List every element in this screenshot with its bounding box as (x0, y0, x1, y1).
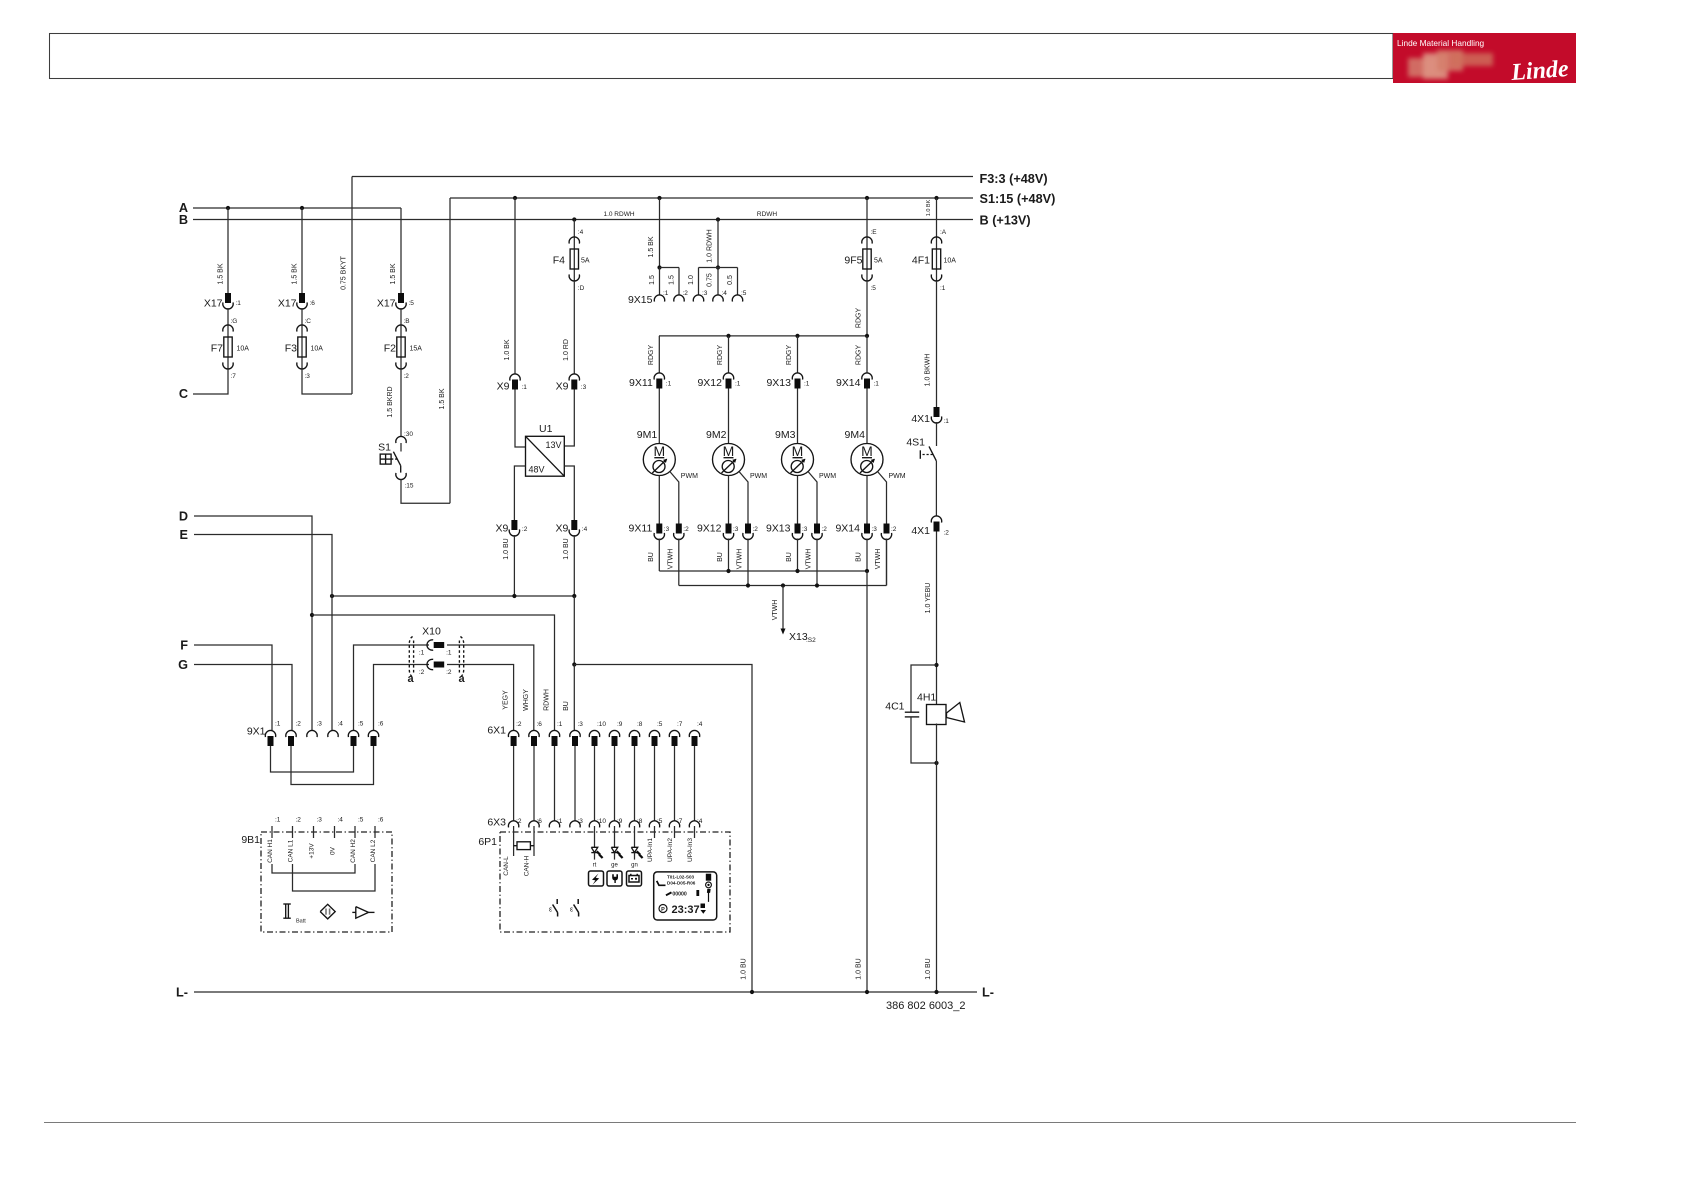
svg-text:9X13: 9X13 (766, 523, 791, 535)
svg-text:M: M (653, 443, 665, 459)
svg-text:+13V: +13V (309, 843, 316, 859)
wire B rail to F4 (573, 220, 575, 238)
junction bus/9X13 (795, 334, 799, 338)
svg-text:RDWH: RDWH (544, 689, 551, 711)
svg-text:X9: X9 (555, 523, 568, 535)
junction VTWH bus 9X13 (815, 583, 819, 587)
wire 9X1:6 to X10:2 (374, 665, 430, 731)
wire 6X3:6 stub CAN-H (533, 826, 535, 856)
wire 9X11:2 to VTWH bus (678, 539, 680, 586)
junction S1 rail / X9:1 (513, 196, 517, 200)
svg-text:1.0 BU: 1.0 BU (925, 958, 932, 979)
svg-text:CAN-H: CAN-H (523, 855, 530, 876)
junction BU bus 9X13 (795, 569, 799, 573)
svg-text:9X15: 9X15 (628, 294, 653, 306)
wire X9:3 to U1 13V (564, 390, 574, 447)
svg-text:23:37: 23:37 (672, 904, 700, 916)
junction bus/9X12 (726, 334, 730, 338)
motor 9M3 (782, 444, 814, 476)
wire A to X17:6 (301, 208, 303, 293)
wire D bus to 6X1:1 (312, 615, 555, 730)
svg-text::1: :1 (275, 817, 281, 824)
svg-text:gn: gn (631, 863, 638, 869)
junction S1 rail / 9F5 (865, 196, 869, 200)
svg-text::1: :1 (874, 381, 880, 388)
connector X17:1 (225, 293, 231, 303)
capacitor 4C1 (905, 711, 919, 713)
svg-text::5: :5 (358, 817, 364, 824)
svg-text:1.5 BK: 1.5 BK (292, 263, 299, 284)
svg-text:WHGY: WHGY (523, 689, 530, 711)
svg-text:UPA-In3: UPA-In3 (687, 838, 694, 862)
junction L- horn (934, 990, 938, 994)
net A line (193, 207, 401, 209)
wire X9:4 to 0V bus (573, 535, 575, 596)
junction L- motors (865, 990, 869, 994)
net S1:15 (+48V) rail (450, 197, 973, 199)
icon plug (607, 871, 622, 886)
motor 9M1 (643, 444, 675, 476)
svg-text:6P1: 6P1 (478, 836, 497, 848)
connector 9X11:3 (656, 524, 662, 534)
wire U1 to X9:2 (514, 466, 525, 520)
connector 4X1:2 (931, 516, 941, 523)
wire motor 9M1 to 9X11:3 (658, 476, 660, 524)
wire X17:1 to F7 (227, 308, 229, 325)
LED gn (634, 826, 636, 847)
svg-text::4: :4 (578, 229, 584, 236)
net VTWH bus (679, 585, 887, 587)
svg-text:1.0 RD: 1.0 RD (563, 339, 570, 361)
svg-text::6: :6 (537, 721, 543, 728)
wire motor 9M3 PWM to 9X13:2 (808, 472, 817, 524)
wire rail to 9X15 right (717, 220, 719, 268)
wire 9X13:3 to BU bus (797, 539, 799, 572)
svg-text:Linde: Linde (1509, 56, 1569, 86)
svg-text:0.5: 0.5 (727, 275, 734, 285)
svg-text:B: B (179, 213, 188, 227)
wires 6X1 to 6X3 (513, 746, 515, 821)
svg-text::D: :D (578, 285, 585, 292)
svg-text:5A: 5A (581, 258, 590, 265)
9B1 pins (271, 826, 273, 838)
motor 9M4 (851, 444, 883, 476)
icon power (589, 871, 604, 886)
svg-text:B (+13V): B (+13V) (980, 214, 1031, 228)
wire X9:1 to U1 (515, 390, 526, 448)
svg-text:9M4: 9M4 (845, 429, 866, 441)
svg-text::4: :4 (338, 721, 344, 728)
junction L- 6P1 (750, 990, 754, 994)
net L- rail (194, 991, 977, 993)
svg-text::3: :3 (664, 526, 670, 533)
svg-text::3: :3 (872, 526, 878, 533)
svg-text::1: :1 (522, 384, 528, 391)
svg-text:5A: 5A (874, 258, 883, 265)
svg-text:0.75 BKYT: 0.75 BKYT (341, 255, 348, 290)
svg-text:L-: L- (176, 986, 188, 1000)
fuse F3 10A (301, 325, 303, 369)
svg-text::2: :2 (419, 669, 425, 676)
svg-text:Batt: Batt (296, 919, 306, 925)
junction BU bus 9X12 (726, 569, 730, 573)
wire 6X3:5 stub UPA-In1 (654, 826, 656, 838)
connector 9X11:1 (654, 373, 664, 380)
wire 9X1:5 to X10:1 (354, 645, 430, 730)
svg-text::G: :G (231, 318, 238, 325)
wire 9X14:1 to motor 9M4 (866, 389, 868, 444)
svg-text::2: :2 (683, 290, 689, 297)
svg-text:9X13: 9X13 (766, 377, 791, 389)
svg-text:9M2: 9M2 (706, 429, 727, 441)
svg-text::8: :8 (637, 721, 643, 728)
connector X17:5 (398, 293, 404, 303)
svg-text::B: :B (404, 318, 410, 325)
svg-text:4X1: 4X1 (911, 413, 930, 425)
wire X17:6 to F3 (301, 308, 303, 325)
header frame (50, 34, 1394, 79)
connector X17:6 (299, 293, 305, 303)
fuse 9F5 5A (866, 237, 868, 281)
connector X9:4 (571, 520, 577, 530)
svg-text::7: :7 (677, 818, 683, 825)
svg-text:X9: X9 (496, 523, 509, 535)
svg-text:1.0 BK: 1.0 BK (504, 339, 511, 360)
wire VTWH bus corner (886, 539, 888, 586)
net BU return bus (659, 570, 867, 572)
svg-text:PWM: PWM (889, 473, 906, 480)
svg-text::1: :1 (446, 650, 452, 657)
svg-text::3: :3 (733, 526, 739, 533)
junction bus/9X14 (865, 334, 869, 338)
svg-text:M: M (792, 443, 804, 459)
display 6P1 (654, 872, 717, 920)
wire 9X12:3 to BU bus (728, 539, 730, 572)
svg-text::2: :2 (446, 669, 452, 676)
svg-text:1.5 BK: 1.5 BK (390, 263, 397, 284)
wire rail to 9X15 left (659, 198, 661, 268)
LED ge (614, 826, 616, 847)
wire CAN L1 to CAN L2 (293, 864, 376, 891)
wire S1:15 to riser (401, 480, 450, 504)
svg-text::9: :9 (617, 721, 623, 728)
net D line (194, 516, 312, 730)
svg-text:VTWH: VTWH (875, 549, 882, 570)
svg-text:4F1: 4F1 (912, 255, 930, 267)
wire drop 9X15:4 (717, 268, 719, 296)
svg-text:RDWH: RDWH (757, 211, 778, 218)
wire 9X13:1 to motor 9M3 (797, 389, 799, 444)
Linde banner (1393, 33, 1576, 83)
svg-text:1.5 BK: 1.5 BK (439, 388, 446, 409)
svg-text::1: :1 (557, 818, 563, 825)
junction S1 rail / 4F1 (934, 196, 938, 200)
svg-text:0.75: 0.75 (707, 273, 714, 287)
svg-text:CAN L1: CAN L1 (288, 839, 295, 862)
module 9B1 box (261, 832, 392, 932)
svg-text::1: :1 (940, 285, 946, 292)
wire X17:5 to F2 (400, 308, 402, 325)
junction horn branch bottom (934, 761, 938, 765)
svg-text::4: :4 (338, 817, 344, 824)
wire BU bus to L- (866, 571, 868, 992)
svg-text::C: :C (305, 318, 312, 325)
battery symbol Batt (283, 903, 291, 905)
svg-text:1.5 BKRD: 1.5 BKRD (387, 386, 394, 417)
svg-text:X17: X17 (278, 298, 297, 310)
triangle symbol (352, 911, 356, 913)
junction B rail / 9X15 (716, 217, 720, 221)
svg-text::3: :3 (317, 817, 323, 824)
wire 6X3:2 stub CAN-L (513, 826, 515, 856)
wire F2 to S1 (400, 369, 402, 437)
wire motor 9M4 to 9X14:3 (866, 476, 868, 524)
svg-text::3: :3 (317, 721, 323, 728)
svg-text::3: :3 (578, 818, 584, 825)
svg-text:13V: 13V (546, 440, 562, 450)
svg-text:ε: ε (570, 907, 573, 914)
wire F3 to BKYT riser (302, 369, 352, 394)
connector 9X14:1 (862, 373, 872, 380)
connector 9X13:1 (792, 373, 802, 380)
svg-text:F7: F7 (211, 343, 223, 355)
svg-text:ε: ε (549, 907, 552, 914)
converter U1 48V/13V (526, 436, 565, 476)
svg-text:9X12: 9X12 (697, 523, 722, 535)
svg-text::10: :10 (597, 721, 606, 728)
wire drop 9X15:1 (659, 268, 661, 296)
wire 1.5 BK riser to S1:15 rail (449, 198, 451, 503)
svg-text:1.5: 1.5 (649, 275, 656, 285)
wire motor 9M3 to 9X13:3 (797, 476, 799, 524)
svg-text:M: M (723, 443, 735, 459)
svg-text::6: :6 (378, 817, 384, 824)
svg-text::A: :A (940, 229, 947, 236)
wire 6X3:7 stub UPA-In2 (674, 826, 676, 838)
connector X9:3 (569, 374, 579, 381)
connector 9X13:3 (795, 524, 801, 534)
svg-text::5: :5 (409, 300, 415, 307)
net E line (194, 535, 332, 731)
svg-text:9X11: 9X11 (629, 523, 653, 535)
svg-text::7: :7 (231, 373, 237, 380)
svg-text:VTWH: VTWH (806, 549, 813, 570)
junction VTWH bus 9X12 (746, 583, 750, 587)
wire X10:2 to 6X1:2 (447, 665, 514, 731)
wire bus to 9X14:1 (866, 336, 868, 373)
wire 4X1:2 to horn (936, 532, 938, 706)
svg-text::2: :2 (683, 526, 689, 533)
svg-text:15A: 15A (410, 346, 423, 353)
junction VTWH bus X13 stub (781, 583, 785, 587)
wire 0V to L- riser (574, 665, 752, 993)
wire 9X1:2 to 9X1:6 link (291, 746, 374, 785)
svg-text::S2: :S2 (806, 637, 816, 644)
svg-text:VTWH: VTWH (772, 600, 779, 621)
svg-text:10A: 10A (944, 258, 957, 265)
svg-text:9B1: 9B1 (241, 834, 260, 846)
svg-text::3: :3 (578, 721, 584, 728)
wire motor 9M2 to 9X12:3 (728, 476, 730, 524)
fuse 4F1 10A (936, 237, 938, 281)
junction 9X15 left split (657, 265, 661, 269)
wire rail to 4F1 (936, 198, 938, 237)
svg-text:YEGY: YEGY (503, 690, 510, 710)
svg-text::6: :6 (537, 818, 543, 825)
svg-text::2: :2 (296, 817, 302, 824)
wire motor 9M1 PWM to 9X11:2 (670, 472, 679, 524)
svg-text:1.0 BU: 1.0 BU (503, 538, 510, 559)
svg-text::30: :30 (404, 431, 413, 438)
svg-text:PWM: PWM (681, 473, 698, 480)
svg-text:C: C (179, 387, 188, 401)
svg-text::2: :2 (516, 818, 522, 825)
svg-text:P: P (661, 907, 665, 913)
fuse F2 15A (400, 325, 402, 369)
svg-text:48V: 48V (529, 465, 545, 475)
svg-text::1: :1 (236, 300, 242, 307)
svg-text:RDGY: RDGY (786, 345, 793, 366)
svg-text::8: :8 (637, 818, 643, 825)
wire F4 to X9:3 (573, 281, 575, 374)
wire 4S1 to 4X1:2 (935, 461, 937, 516)
wire capacitor branch (911, 665, 937, 712)
svg-text:9X14: 9X14 (835, 523, 860, 535)
svg-text:RDGY: RDGY (856, 345, 863, 366)
svg-text:1.0 BKWH: 1.0 BKWH (925, 354, 932, 387)
wire bus to 9X13:1 (797, 336, 799, 373)
wire 9X14:3 to BU bus (866, 539, 868, 572)
svg-text:F: F (180, 639, 188, 653)
svg-text:E: E (180, 528, 188, 542)
junction X9:2/0V bus (512, 594, 516, 598)
LED rt (594, 826, 596, 847)
svg-text::1: :1 (944, 418, 950, 425)
wire motor 9M4 PWM to 9X14:2 (878, 472, 887, 524)
svg-text:00000: 00000 (672, 891, 687, 897)
svg-text::3: :3 (802, 526, 808, 533)
net B (+13V) rail (193, 219, 973, 221)
svg-text:6X1: 6X1 (487, 725, 506, 737)
wire A corner to X17:5 (400, 208, 402, 293)
svg-text:1.0 BU: 1.0 BU (563, 538, 570, 559)
wire X10:1 to 6X1:6 (447, 645, 534, 730)
svg-text::5: :5 (657, 721, 663, 728)
svg-text:9M1: 9M1 (637, 429, 658, 441)
connector 9X11:2 (676, 524, 682, 534)
wire stub to X13:S2 (782, 586, 784, 630)
junction horn branch top (934, 663, 938, 667)
svg-text:BU: BU (856, 552, 863, 562)
svg-text:rt: rt (593, 863, 597, 869)
svg-text::1: :1 (275, 721, 281, 728)
junction B rail / F4 (572, 217, 576, 221)
wire capacitor to junction (911, 717, 937, 763)
net F line (194, 645, 272, 730)
svg-text:BU: BU (717, 552, 724, 562)
svg-text:X17: X17 (204, 298, 223, 310)
svg-text:ge: ge (611, 863, 618, 869)
wire 9X12:1 to motor 9M2 (728, 389, 730, 444)
svg-text:F3: F3 (285, 343, 297, 355)
svg-text::7: :7 (677, 721, 683, 728)
wire U1 to X9:4 (564, 466, 574, 520)
svg-text:10A: 10A (311, 346, 324, 353)
wire bus to 9X11:1 (658, 336, 660, 373)
junction A/X17:1 (226, 206, 230, 210)
connector 4X1:1 (934, 407, 940, 417)
svg-text:G: G (178, 658, 188, 672)
svg-text::4: :4 (722, 290, 728, 297)
svg-text::3: :3 (305, 373, 311, 380)
svg-text:1.0 RDWH: 1.0 RDWH (603, 211, 634, 218)
svg-text::2: :2 (296, 721, 302, 728)
junction D bus (310, 613, 314, 617)
diamond symbol (320, 904, 335, 919)
connector X9:1 (510, 374, 520, 381)
svg-text:1.0 RDWH: 1.0 RDWH (707, 229, 714, 262)
junction BU bus 9X14 (865, 569, 869, 573)
net F3:3 (+48V) rail (352, 176, 973, 178)
svg-text:0V: 0V (330, 846, 337, 855)
svg-text:386 802 6003_2: 386 802 6003_2 (886, 1000, 966, 1012)
svg-text:F3:3 (+48V): F3:3 (+48V) (980, 172, 1048, 186)
resistor CAN termination (514, 845, 517, 847)
svg-text::1: :1 (666, 381, 672, 388)
motor 9M2 (713, 444, 745, 476)
svg-text:VTWH: VTWH (737, 549, 744, 570)
svg-text::5: :5 (358, 721, 364, 728)
svg-text:BU: BU (786, 552, 793, 562)
svg-text::2: :2 (522, 526, 528, 533)
svg-text::2: :2 (753, 526, 759, 533)
wire rail to X9:1 (514, 198, 516, 374)
svg-text::1: :1 (557, 721, 563, 728)
svg-text:VTWH: VTWH (667, 549, 674, 570)
wire bus to 9X12:1 (728, 336, 730, 373)
svg-text:1.5 BK: 1.5 BK (218, 263, 225, 284)
footer rule (44, 1122, 1576, 1124)
svg-text:1.0 BU: 1.0 BU (856, 958, 863, 979)
svg-text:F4: F4 (553, 255, 565, 267)
connector 9X13:2 (814, 524, 820, 534)
svg-text:X9: X9 (556, 381, 569, 393)
svg-text::2: :2 (891, 526, 897, 533)
svg-text:X17: X17 (377, 298, 396, 310)
junction A/X17:6 (300, 206, 304, 210)
svg-text:Linde Material Handling: Linde Material Handling (1397, 38, 1485, 48)
connector 9X14:2 (884, 524, 890, 534)
svg-text:1.0: 1.0 (688, 275, 695, 285)
svg-text::6: :6 (310, 300, 316, 307)
svg-text::4: :4 (697, 721, 703, 728)
svg-text:1.0 YEBU: 1.0 YEBU (925, 583, 932, 614)
svg-text:a: a (458, 673, 465, 685)
svg-text:U1: U1 (539, 423, 553, 435)
junction E/0V bus (330, 594, 334, 598)
wire A to X17:1 (227, 208, 229, 293)
wire 9X14:2 to VTWH bus (886, 539, 888, 586)
svg-text:4H1: 4H1 (917, 692, 936, 704)
svg-text:1.0 BK: 1.0 BK (926, 199, 932, 216)
svg-text:10A: 10A (237, 346, 250, 353)
micro switch symbol 2 (577, 899, 579, 904)
net motor supply bus RDGY (659, 335, 867, 337)
svg-text:UPA-In1: UPA-In1 (647, 838, 654, 862)
wire 0V bus drop (573, 596, 575, 665)
svg-text:M: M (861, 443, 873, 459)
wire CAN H1 to CAN H2 (272, 864, 355, 873)
